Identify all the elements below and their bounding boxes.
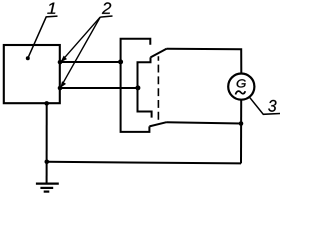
box 1 (device under test) (4, 45, 60, 103)
junction dot wire 2 at box edge (58, 86, 63, 91)
label 1 (47, 3, 55, 14)
junction dot at ground tee (45, 160, 50, 165)
junction dot at generator branch (239, 121, 244, 126)
connector inner bracket (138, 57, 152, 117)
switch blade 2 (149, 122, 166, 126)
junction dot wire 1 at plug bar (118, 59, 123, 64)
generator AC tilde (236, 91, 246, 94)
junction dot wire 1 at box edge (58, 60, 63, 65)
leader line for label 1 (26, 16, 58, 60)
label 3 (268, 100, 276, 112)
switch blade 1 (151, 49, 167, 58)
generator letter G (237, 79, 246, 87)
leader arrow 2b (60, 17, 100, 88)
wire from blade 1 to generator (167, 49, 242, 74)
underline of label 2 (100, 16, 112, 17)
wire from blade 2 to generator branch (167, 122, 242, 123)
wire below generator (240, 100, 242, 164)
wire 1 (upper conductor) (60, 61, 121, 63)
junction dot wire 2 at socket bar (135, 85, 140, 90)
mechanical linkage (dashed) (157, 56, 159, 121)
wire from box bottom to ground (46, 103, 48, 183)
label 2 (102, 2, 111, 14)
generator circle (228, 74, 254, 100)
junction dot at box bottom (44, 101, 49, 106)
leader arrow 2a (60, 17, 100, 62)
ground (36, 184, 59, 192)
wire 2 (lower conductor) (60, 87, 138, 89)
connector outer bracket (121, 39, 151, 132)
bottom return wire (47, 162, 241, 164)
leader line for label 3 (250, 97, 281, 114)
